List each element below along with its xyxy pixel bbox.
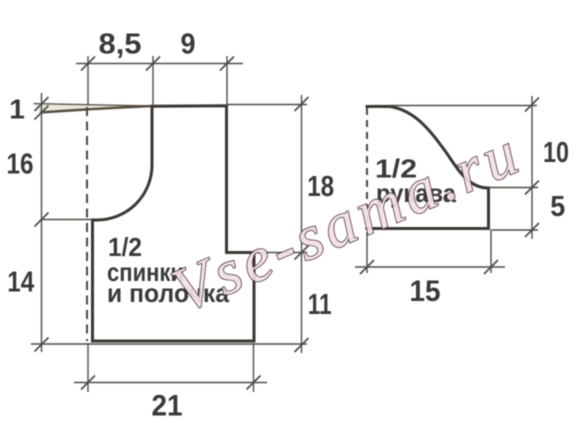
- left dimension line (1 / 16 / 14): [41, 93, 43, 352]
- watermark Vse-sama.ru: [162, 116, 532, 326]
- sleeve fold dashed line: [366, 108, 368, 227]
- extension line from sleeve lower edge: [491, 229, 538, 231]
- tick marks on bottom dimension line: [81, 376, 261, 390]
- extension line from side step to right dimension line: [254, 252, 307, 254]
- svg-text:Vse-sama.ru: Vse-sama.ru: [162, 116, 532, 326]
- tick marks on top dimension line: [81, 57, 234, 71]
- extension lines from top dimension line down to body piece: [88, 56, 227, 106]
- shoulder top thin line: [34, 104, 153, 106]
- extension lines from sleeve lower corners down: [366, 232, 368, 273]
- sleeve right dimension line (10 / 5): [531, 96, 533, 239]
- extension line from body top edge to right dimension line: [227, 104, 307, 106]
- tick marks on left dimension line: [35, 97, 49, 352]
- svg-text:21: 21: [152, 389, 183, 422]
- svg-text:10: 10: [543, 137, 569, 169]
- sleeve piece outline (1/2 sleeve): [366, 106, 489, 228]
- extension line from sleeve underarm corner: [489, 187, 538, 189]
- svg-text:16: 16: [7, 149, 34, 181]
- shoulder slope curve: [40, 106, 152, 113]
- shoulder slope fill (front/back piece): [34, 104, 153, 113]
- tick marks on right dimension line: [295, 97, 309, 352]
- top dimension line (8,5 / 9): [76, 63, 243, 65]
- right dimension line (18 / 11): [301, 95, 303, 353]
- svg-text:15: 15: [410, 275, 441, 308]
- svg-text:8,5: 8,5: [99, 29, 142, 61]
- extension line at armhole depth level: [42, 219, 93, 221]
- extension line from sleeve cap top to sleeve dimension line: [390, 105, 537, 107]
- extension lines from hem down to bottom dimension line: [87, 343, 89, 392]
- tick marks on sleeve right dimension line: [525, 98, 539, 238]
- bottom dimension line (21): [74, 382, 267, 384]
- svg-text:9: 9: [181, 29, 196, 61]
- svg-text:14: 14: [7, 267, 34, 299]
- svg-text:5: 5: [550, 191, 565, 223]
- extension line under hem across drawing: [31, 343, 307, 345]
- svg-text:11: 11: [308, 289, 332, 321]
- tick marks on sleeve bottom dimension line: [360, 260, 498, 274]
- sleeve bottom dimension line (15): [355, 266, 505, 268]
- body piece outline (1/2 back and front): [93, 106, 255, 341]
- body center fold dashed line: [86, 107, 88, 341]
- svg-text:1: 1: [9, 93, 25, 124]
